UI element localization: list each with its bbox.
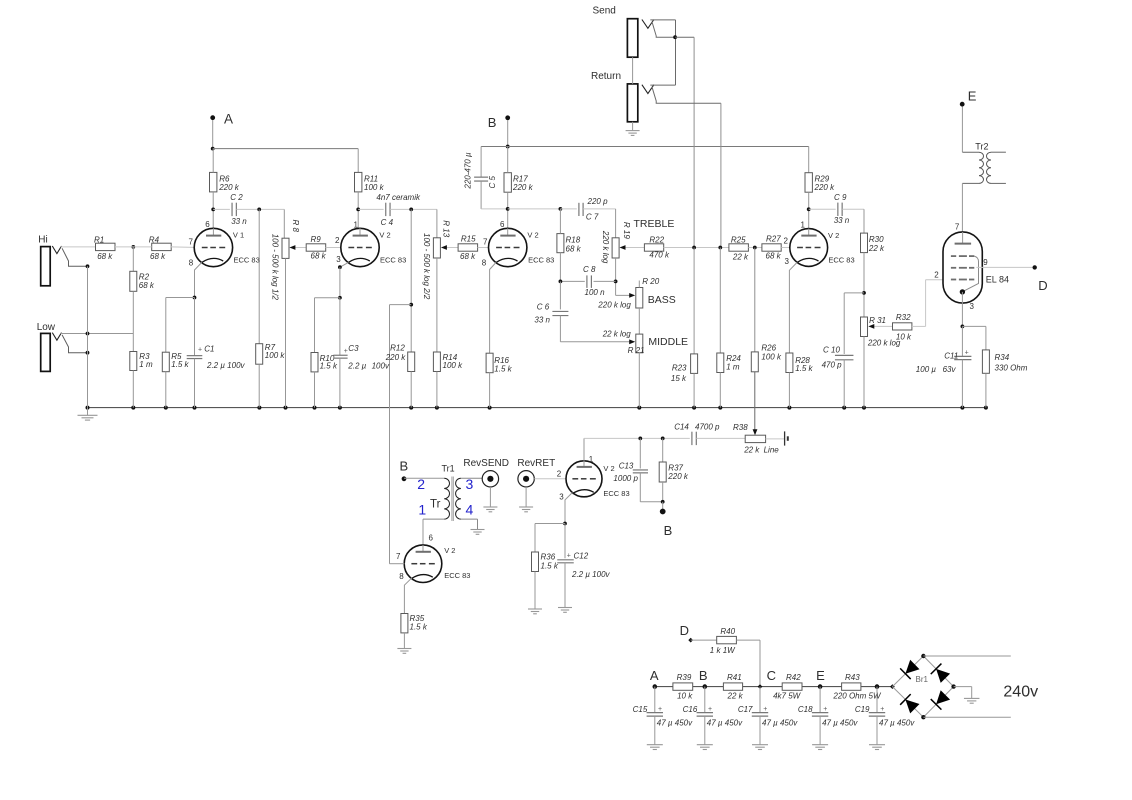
- svg-text:1: 1: [589, 455, 594, 464]
- svg-text:220 k log: 220 k log: [597, 301, 631, 310]
- svg-text:68 k: 68 k: [150, 252, 166, 261]
- svg-text:R 13: R 13: [442, 220, 451, 237]
- svg-text:100 - 500 k log 1/2: 100 - 500 k log 1/2: [271, 234, 280, 301]
- svg-text:100v: 100v: [372, 361, 390, 370]
- svg-text:3: 3: [785, 257, 790, 266]
- svg-text:2: 2: [784, 236, 789, 245]
- svg-text:R9: R9: [311, 235, 322, 244]
- svg-text:B: B: [400, 459, 409, 474]
- svg-text:2: 2: [335, 236, 340, 245]
- svg-text:V 1: V 1: [233, 231, 244, 240]
- svg-text:2.2 µ 100v: 2.2 µ 100v: [206, 361, 246, 370]
- svg-text:C: C: [767, 668, 776, 683]
- svg-text:C14: C14: [674, 422, 689, 431]
- svg-text:10 k: 10 k: [896, 333, 912, 342]
- svg-text:R23: R23: [672, 363, 687, 372]
- svg-text:Tr2: Tr2: [975, 141, 988, 151]
- svg-text:220 p: 220 p: [587, 197, 609, 206]
- svg-text:68 k: 68 k: [97, 252, 113, 261]
- svg-text:2.2 µ 100v: 2.2 µ 100v: [571, 570, 611, 579]
- svg-text:R15: R15: [461, 235, 476, 244]
- svg-text:22 k: 22 k: [743, 445, 760, 454]
- svg-text:B: B: [488, 115, 497, 130]
- svg-text:R34: R34: [995, 353, 1010, 362]
- svg-text:+: +: [344, 348, 348, 355]
- svg-text:2.2 µ: 2.2 µ: [347, 361, 366, 370]
- svg-text:4k7 5W: 4k7 5W: [773, 692, 802, 701]
- svg-text:A: A: [650, 668, 659, 683]
- svg-text:R38: R38: [733, 423, 748, 432]
- svg-text:1: 1: [418, 502, 426, 518]
- svg-text:+: +: [965, 349, 969, 356]
- svg-text:+: +: [823, 706, 827, 713]
- svg-text:ECC 83: ECC 83: [234, 255, 260, 264]
- svg-text:R 8: R 8: [291, 220, 300, 233]
- svg-text:220 k: 220 k: [667, 472, 689, 481]
- svg-text:ECC 83: ECC 83: [828, 255, 854, 264]
- svg-text:100 - 500 k log 2/2: 100 - 500 k log 2/2: [422, 233, 431, 300]
- svg-text:EL 84: EL 84: [986, 275, 1009, 285]
- svg-text:Br1: Br1: [916, 675, 929, 684]
- svg-text:8: 8: [399, 572, 404, 581]
- svg-text:R39: R39: [677, 673, 692, 682]
- svg-text:C17: C17: [738, 705, 753, 714]
- svg-text:V 2: V 2: [527, 231, 538, 240]
- svg-text:7: 7: [483, 237, 488, 246]
- svg-text:A: A: [224, 111, 233, 126]
- svg-text:22 k: 22 k: [868, 244, 885, 253]
- svg-text:2: 2: [417, 476, 425, 492]
- svg-text:C 4: C 4: [381, 218, 394, 227]
- svg-text:1.5 k: 1.5 k: [171, 360, 189, 369]
- svg-text:+: +: [880, 706, 884, 713]
- svg-text:V 2: V 2: [379, 231, 390, 240]
- svg-text:7: 7: [396, 552, 401, 561]
- svg-text:100 n: 100 n: [585, 288, 606, 297]
- svg-text:R 31: R 31: [869, 316, 886, 325]
- svg-text:C 5: C 5: [488, 176, 497, 189]
- svg-text:47 µ 450v: 47 µ 450v: [879, 718, 915, 727]
- svg-text:6: 6: [205, 220, 210, 229]
- svg-text:R32: R32: [896, 313, 911, 322]
- svg-text:R27: R27: [766, 235, 781, 244]
- svg-text:+: +: [198, 347, 202, 354]
- svg-text:1.5 k: 1.5 k: [494, 365, 512, 374]
- svg-text:BASS: BASS: [648, 294, 676, 306]
- svg-text:+: +: [763, 706, 767, 713]
- svg-text:Tr: Tr: [430, 499, 441, 511]
- svg-text:100 k: 100 k: [443, 361, 464, 370]
- svg-text:R16: R16: [494, 356, 509, 365]
- svg-text:R 20: R 20: [642, 277, 659, 286]
- svg-text:R41: R41: [727, 673, 742, 682]
- svg-text:R18: R18: [566, 236, 581, 245]
- svg-text:V 2: V 2: [828, 231, 839, 240]
- svg-text:D: D: [1038, 278, 1047, 293]
- svg-text:ECC 83: ECC 83: [380, 255, 406, 264]
- svg-text:33 n: 33 n: [534, 316, 550, 325]
- svg-text:1.5 k: 1.5 k: [410, 622, 428, 631]
- svg-text:C 8: C 8: [583, 265, 596, 274]
- svg-text:68 k: 68 k: [311, 252, 327, 261]
- svg-text:1.5 k: 1.5 k: [795, 364, 813, 373]
- svg-text:R4: R4: [149, 235, 160, 244]
- svg-text:R40: R40: [720, 627, 735, 636]
- svg-text:68 k: 68 k: [460, 252, 476, 261]
- svg-text:Low: Low: [37, 322, 56, 333]
- svg-text:C1: C1: [204, 344, 214, 353]
- svg-text:Line: Line: [764, 445, 780, 454]
- svg-text:47 µ 450v: 47 µ 450v: [657, 718, 693, 727]
- svg-text:1.5 k: 1.5 k: [320, 362, 338, 371]
- svg-text:TREBLE: TREBLE: [634, 218, 675, 230]
- svg-text:6: 6: [429, 534, 434, 543]
- svg-text:4: 4: [466, 502, 474, 518]
- svg-text:ECC 83: ECC 83: [528, 255, 554, 264]
- svg-text:47 µ 450v: 47 µ 450v: [822, 718, 858, 727]
- svg-text:100 µ: 100 µ: [916, 365, 937, 374]
- svg-text:R 19: R 19: [622, 222, 631, 239]
- svg-text:V 2: V 2: [603, 464, 614, 473]
- svg-text:MIDDLE: MIDDLE: [648, 336, 688, 348]
- svg-text:C15: C15: [633, 705, 648, 714]
- svg-text:3: 3: [559, 492, 564, 501]
- svg-text:63v: 63v: [943, 365, 957, 374]
- svg-text:R26: R26: [761, 344, 776, 353]
- svg-text:2: 2: [557, 469, 562, 478]
- svg-text:8: 8: [482, 259, 487, 268]
- svg-text:1 m: 1 m: [726, 363, 740, 372]
- svg-text:+: +: [708, 706, 712, 713]
- svg-text:22 k: 22 k: [732, 252, 749, 261]
- svg-text:68 k: 68 k: [566, 245, 582, 254]
- svg-text:7: 7: [189, 237, 194, 246]
- svg-text:22 k log: 22 k log: [602, 329, 632, 338]
- svg-text:C 7: C 7: [586, 212, 599, 221]
- svg-text:470 k: 470 k: [649, 251, 670, 260]
- svg-text:4700 p: 4700 p: [695, 422, 720, 431]
- svg-text:220 k: 220 k: [218, 183, 240, 192]
- svg-text:15 k: 15 k: [671, 374, 687, 383]
- svg-text:1: 1: [801, 220, 806, 229]
- svg-text:100 k: 100 k: [265, 351, 286, 360]
- svg-text:22 k: 22 k: [727, 692, 744, 701]
- svg-text:R42: R42: [786, 673, 801, 682]
- svg-text:100 k: 100 k: [364, 183, 385, 192]
- svg-text:R1: R1: [94, 235, 104, 244]
- svg-text:Hi: Hi: [38, 235, 47, 246]
- svg-text:R36: R36: [541, 553, 556, 562]
- svg-text:470 p: 470 p: [822, 360, 843, 369]
- svg-text:9: 9: [983, 258, 988, 267]
- svg-text:+: +: [658, 706, 662, 713]
- svg-text:68 k: 68 k: [139, 281, 155, 290]
- svg-text:B: B: [664, 523, 673, 538]
- svg-text:RevSEND: RevSEND: [463, 458, 509, 469]
- svg-text:220 k: 220 k: [512, 183, 534, 192]
- svg-text:RevRET: RevRET: [517, 458, 555, 469]
- svg-text:3: 3: [970, 302, 975, 311]
- svg-text:R 21: R 21: [628, 346, 645, 355]
- svg-text:C3: C3: [348, 344, 359, 353]
- svg-text:2: 2: [934, 270, 939, 279]
- svg-text:E: E: [816, 668, 825, 683]
- svg-text:R43: R43: [845, 673, 860, 682]
- svg-text:220 k log: 220 k log: [601, 230, 610, 264]
- svg-text:R30: R30: [869, 235, 884, 244]
- svg-text:1000 p: 1000 p: [613, 474, 638, 483]
- svg-text:220 Ohm 5W: 220 Ohm 5W: [832, 692, 882, 701]
- svg-text:R12: R12: [390, 344, 405, 353]
- svg-text:ECC 83: ECC 83: [444, 571, 470, 580]
- svg-text:7: 7: [955, 222, 960, 231]
- svg-text:4n7 ceramik: 4n7 ceramik: [376, 193, 421, 202]
- svg-text:C13: C13: [619, 462, 634, 471]
- svg-text:Tr1: Tr1: [442, 464, 455, 474]
- svg-text:E: E: [968, 88, 977, 103]
- svg-text:Return: Return: [591, 71, 621, 82]
- svg-text:C16: C16: [683, 705, 698, 714]
- svg-text:B: B: [699, 668, 708, 683]
- svg-text:R25: R25: [731, 235, 746, 244]
- svg-text:10 k: 10 k: [677, 692, 693, 701]
- svg-text:C11: C11: [944, 351, 958, 360]
- svg-text:33 n: 33 n: [231, 217, 247, 226]
- svg-text:ECC 83: ECC 83: [603, 489, 629, 498]
- svg-text:100 k: 100 k: [761, 353, 782, 362]
- svg-text:1 k 1W: 1 k 1W: [710, 646, 736, 655]
- svg-text:47 µ 450v: 47 µ 450v: [762, 718, 798, 727]
- svg-text:C 6: C 6: [537, 302, 550, 311]
- svg-text:+: +: [567, 553, 571, 560]
- svg-text:33 n: 33 n: [834, 216, 850, 225]
- svg-text:220 k: 220 k: [814, 183, 836, 192]
- svg-text:1 m: 1 m: [139, 360, 153, 369]
- svg-text:Send: Send: [593, 5, 616, 16]
- svg-text:C 10: C 10: [823, 345, 840, 354]
- svg-text:C12: C12: [574, 552, 589, 561]
- svg-text:47 µ 450v: 47 µ 450v: [707, 718, 743, 727]
- svg-text:1.5 k: 1.5 k: [541, 561, 559, 570]
- svg-text:330 Ohm: 330 Ohm: [995, 364, 1028, 373]
- svg-text:C18: C18: [798, 705, 813, 714]
- svg-text:1: 1: [354, 221, 359, 230]
- svg-text:6: 6: [500, 220, 505, 229]
- svg-text:D: D: [680, 623, 689, 638]
- svg-text:68 k: 68 k: [766, 251, 782, 260]
- svg-text:240v: 240v: [1003, 684, 1038, 701]
- svg-text:C 9: C 9: [834, 193, 847, 202]
- svg-text:C 2: C 2: [230, 193, 243, 202]
- svg-text:8: 8: [189, 259, 194, 268]
- svg-text:3: 3: [336, 255, 341, 264]
- svg-text:220-470 µ: 220-470 µ: [464, 152, 473, 190]
- svg-text:R22: R22: [649, 235, 664, 244]
- svg-text:V 2: V 2: [444, 546, 455, 555]
- svg-text:C19: C19: [855, 705, 870, 714]
